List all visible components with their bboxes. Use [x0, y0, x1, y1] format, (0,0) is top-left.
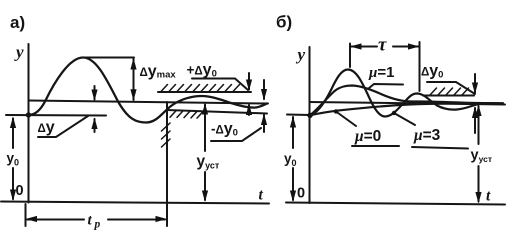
tp dimension (plot a)	[25, 204, 27, 226]
tau dimension	[349, 44, 351, 68]
svg-text:μ=1: μ=1	[368, 64, 394, 81]
start dot (plot b)	[307, 113, 312, 118]
dy0 leader underline (plot b)	[427, 82, 475, 94]
yust dimension (plot b)	[478, 106, 480, 144]
svg-text:μ=3: μ=3	[413, 127, 441, 144]
svg-text:б): б)	[276, 13, 292, 32]
hatching above upper band	[161, 85, 240, 92]
y0 dimension (plot a)	[12, 119, 14, 149]
tp boundary vertical line (plot a)	[166, 102, 168, 226]
dy0 dimension arrows at x=475	[474, 74, 476, 93]
dy dimension arrows at x=94.5	[94, 86, 96, 100]
-dy0 dimension arrows at x=264	[263, 80, 265, 99]
svg-text:t: t	[486, 188, 491, 205]
hatching above band (plot b)	[430, 88, 469, 95]
steady-state line (plot a)	[29, 101, 269, 104]
t axis (plot a)	[1, 202, 269, 204]
steady-state line (plot b)	[310, 102, 506, 105]
hatching below lower band	[170, 111, 203, 118]
y axis (plot b)	[309, 47, 311, 203]
svg-text:а): а)	[10, 13, 25, 32]
mu=1 leader	[369, 84, 404, 89]
hatching along tp line	[162, 123, 171, 147]
dy leader underline	[38, 116, 88, 137]
upper tolerance band line (plot a)	[158, 91, 251, 93]
curve mu=3	[310, 86, 500, 116]
+dy0 dimension arrows at x=249	[248, 73, 250, 90]
svg-text:τ: τ	[378, 35, 387, 56]
tolerance band line (plot b)	[423, 95, 474, 97]
svg-text:0: 0	[16, 183, 24, 199]
mu=3 leader	[412, 147, 468, 149]
svg-text:y: y	[14, 43, 24, 62]
curve mu=1	[310, 70, 478, 117]
initial value tick (plot b)	[287, 114, 310, 117]
y0 dimension (plot b)	[292, 117, 294, 148]
svg-text:μ=0: μ=0	[354, 128, 381, 145]
lower tolerance band line (plot a)	[167, 110, 267, 114]
-dy0 leader underline	[211, 128, 261, 141]
svg-text:y: y	[296, 45, 306, 64]
initial value line (plot a)	[6, 114, 106, 117]
svg-text:t: t	[259, 187, 264, 204]
svg-text:0: 0	[297, 186, 305, 202]
t axis (plot b)	[286, 203, 505, 205]
y axis (plot a)	[28, 44, 30, 203]
curve mu=0	[310, 103, 503, 115]
mu=0 leader	[352, 145, 399, 147]
svg-text:p: p	[94, 219, 101, 231]
+dy0 leader underline	[192, 79, 248, 91]
transient curve (plot a)	[29, 58, 268, 123]
start dot (plot a)	[26, 112, 31, 117]
yust dimension (plot a)	[204, 105, 206, 152]
dymax dimension arrow	[133, 59, 135, 100]
peak level line (plot a)	[84, 57, 134, 59]
